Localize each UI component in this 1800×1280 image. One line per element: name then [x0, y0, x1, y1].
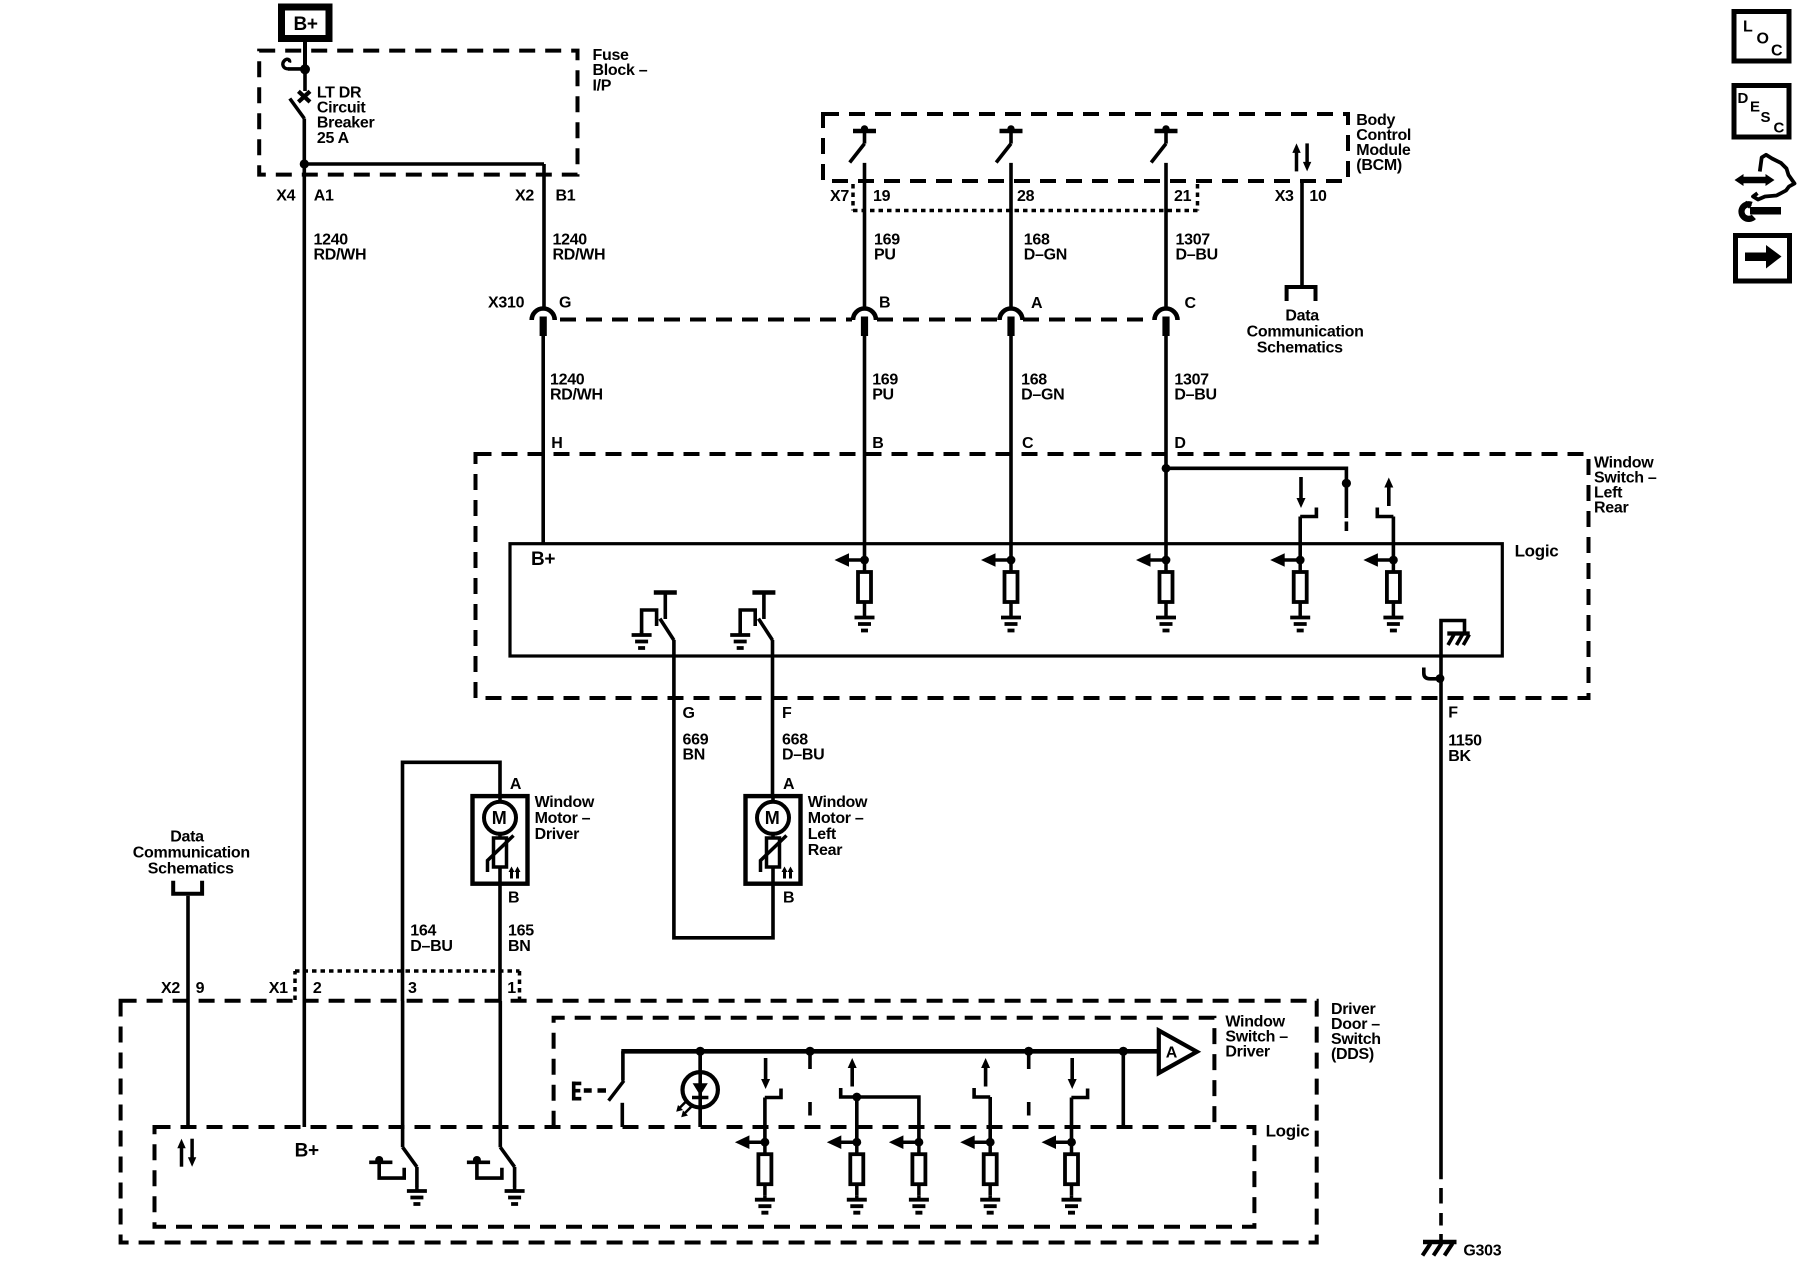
- svg-text:B+: B+: [295, 1140, 319, 1161]
- svg-text:25 A: 25 A: [317, 130, 350, 147]
- svg-text:BN: BN: [683, 747, 706, 764]
- svg-text:9: 9: [196, 980, 205, 997]
- svg-text:B: B: [872, 435, 883, 452]
- svg-text:Window: Window: [535, 794, 595, 811]
- svg-text:D–BU: D–BU: [1174, 387, 1216, 404]
- svg-text:Schematics: Schematics: [148, 861, 234, 878]
- svg-text:D: D: [1174, 435, 1185, 452]
- svg-text:BK: BK: [1448, 748, 1471, 765]
- svg-text:A: A: [1031, 295, 1043, 312]
- svg-text:RD/WH: RD/WH: [314, 247, 367, 264]
- svg-text:A: A: [510, 776, 522, 793]
- svg-text:Data: Data: [170, 829, 204, 846]
- svg-text:Motor –: Motor –: [808, 810, 864, 827]
- svg-text:28: 28: [1017, 188, 1035, 205]
- svg-text:Window: Window: [808, 794, 868, 811]
- svg-text:F: F: [782, 705, 792, 722]
- svg-text:B: B: [879, 295, 890, 312]
- svg-text:PU: PU: [872, 387, 894, 404]
- svg-text:Logic: Logic: [1266, 1122, 1310, 1141]
- svg-text:M: M: [492, 808, 507, 828]
- svg-text:2: 2: [313, 980, 322, 997]
- svg-text:Rear: Rear: [1594, 500, 1628, 517]
- svg-text:G303: G303: [1463, 1243, 1501, 1260]
- svg-text:3: 3: [408, 980, 417, 997]
- svg-text:B: B: [508, 890, 519, 907]
- svg-text:Data: Data: [1285, 308, 1319, 325]
- svg-text:X310: X310: [488, 295, 525, 312]
- svg-text:D–BU: D–BU: [1176, 247, 1218, 264]
- svg-text:C: C: [1022, 435, 1034, 452]
- svg-text:L: L: [1743, 19, 1753, 36]
- svg-text:C: C: [1771, 42, 1783, 59]
- svg-text:A: A: [1166, 1045, 1178, 1062]
- svg-text:C: C: [1185, 295, 1197, 312]
- svg-text:RD/WH: RD/WH: [550, 387, 603, 404]
- svg-text:X1: X1: [269, 980, 288, 997]
- svg-text:E: E: [1750, 99, 1760, 116]
- svg-text:(DDS): (DDS): [1331, 1046, 1374, 1063]
- svg-text:D–GN: D–GN: [1024, 247, 1067, 264]
- svg-text:Logic: Logic: [1515, 542, 1559, 561]
- svg-text:B1: B1: [556, 188, 576, 205]
- svg-text:D: D: [1738, 90, 1749, 107]
- svg-text:G: G: [683, 705, 695, 722]
- svg-text:G: G: [559, 295, 571, 312]
- svg-text:B: B: [783, 890, 794, 907]
- svg-text:RD/WH: RD/WH: [553, 247, 606, 264]
- svg-text:A: A: [783, 776, 795, 793]
- svg-text:X2: X2: [161, 980, 180, 997]
- svg-text:B+: B+: [531, 549, 555, 570]
- svg-text:Communication: Communication: [1247, 324, 1364, 341]
- svg-text:A1: A1: [314, 188, 334, 205]
- svg-text:X4: X4: [276, 188, 295, 205]
- svg-text:PU: PU: [874, 247, 896, 264]
- svg-text:S: S: [1761, 109, 1771, 126]
- svg-text:H: H: [551, 435, 562, 452]
- svg-text:M: M: [765, 808, 780, 828]
- svg-text:BN: BN: [508, 938, 531, 955]
- svg-text:Driver: Driver: [535, 826, 580, 843]
- svg-text:C: C: [1774, 120, 1785, 137]
- svg-text:X2: X2: [515, 188, 534, 205]
- svg-text:X7: X7: [830, 188, 849, 205]
- svg-text:Rear: Rear: [808, 842, 842, 859]
- svg-text:19: 19: [873, 188, 891, 205]
- svg-text:B+: B+: [294, 14, 318, 35]
- svg-text:D–GN: D–GN: [1021, 387, 1064, 404]
- svg-text:10: 10: [1309, 188, 1327, 205]
- svg-text:D–BU: D–BU: [782, 747, 824, 764]
- svg-text:D–BU: D–BU: [410, 938, 452, 955]
- svg-text:I/P: I/P: [593, 78, 612, 95]
- svg-text:Schematics: Schematics: [1257, 340, 1343, 357]
- svg-text:X3: X3: [1275, 188, 1294, 205]
- svg-text:F: F: [1448, 705, 1458, 722]
- svg-text:Communication: Communication: [133, 845, 250, 862]
- svg-text:1: 1: [507, 980, 516, 997]
- svg-text:(BCM): (BCM): [1356, 157, 1402, 174]
- svg-text:O: O: [1757, 31, 1769, 48]
- svg-text:Left: Left: [808, 826, 837, 843]
- svg-text:Motor –: Motor –: [535, 810, 591, 827]
- svg-text:Driver: Driver: [1225, 1044, 1270, 1061]
- svg-text:21: 21: [1174, 188, 1192, 205]
